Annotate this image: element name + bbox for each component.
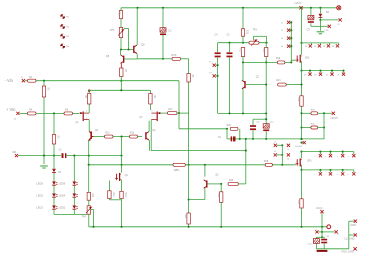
svg-text:P1: P1 [209, 62, 211, 64]
svg-text:TP1: TP1 [110, 29, 115, 32]
svg-text:R20: R20 [227, 125, 232, 127]
svg-text:TP3: TP3 [252, 28, 257, 31]
svg-text:R16: R16 [245, 30, 247, 35]
svg-text:R28: R28 [264, 160, 269, 163]
svg-text:Q8: Q8 [106, 55, 110, 58]
svg-text:QP1: QP1 [307, 160, 312, 162]
svg-text:R30: R30 [297, 200, 299, 205]
svg-text:R24: R24 [217, 193, 219, 198]
svg-text:R29: R29 [297, 97, 299, 102]
svg-text:s: s [348, 174, 349, 176]
svg-text:s: s [325, 156, 326, 158]
svg-text:LED2: LED2 [59, 206, 66, 210]
svg-text:L4: L4 [281, 46, 283, 48]
svg-text:s: s [348, 156, 349, 158]
svg-text:J1: J1 [274, 142, 276, 144]
svg-text:-VCC: -VCC [315, 206, 322, 210]
svg-text:LED5: LED5 [37, 182, 44, 186]
svg-text:R15: R15 [130, 133, 135, 135]
svg-text:R10: R10 [106, 133, 111, 135]
svg-text:LED4: LED4 [59, 194, 66, 198]
svg-text:J3: J3 [274, 151, 276, 153]
svg-text:Q9: Q9 [141, 43, 145, 47]
svg-text:H4: H4 [67, 46, 69, 48]
svg-text:LED1: LED1 [37, 206, 44, 210]
svg-text:LSOUT: LSOUT [330, 118, 338, 120]
svg-text:QN1: QN1 [305, 57, 310, 59]
svg-text:s: s [337, 156, 338, 158]
svg-text:LSG: LSG [325, 30, 329, 32]
svg-text:PSU_GND: PSU_GND [342, 251, 354, 254]
svg-text:R22: R22 [184, 214, 186, 219]
svg-text:R13: R13 [112, 192, 114, 197]
svg-text:H2: H2 [67, 26, 69, 28]
svg-text:R14: R14 [124, 192, 126, 197]
svg-text:R19: R19 [276, 58, 281, 60]
svg-text:R12: R12 [91, 193, 93, 198]
svg-text:R17: R17 [169, 109, 174, 111]
svg-text:L3: L3 [281, 38, 283, 40]
svg-text:RC8: RC8 [172, 54, 177, 57]
svg-text:L8: L8 [337, 24, 339, 26]
svg-text:P4: P4 [209, 72, 211, 74]
svg-text:s: s [314, 156, 315, 158]
svg-text:J4: J4 [287, 159, 289, 161]
svg-text:R23: R23 [229, 180, 234, 182]
svg-text:L2: L2 [281, 30, 283, 32]
svg-text:R21: R21 [276, 80, 281, 82]
svg-text:- Vin: - Vin [5, 78, 14, 83]
svg-text:JMP1: JMP1 [174, 169, 181, 172]
svg-text:R18: R18 [262, 49, 264, 54]
svg-text:L1: L1 [281, 22, 283, 24]
svg-text:LED6: LED6 [59, 182, 66, 186]
svg-text:H3: H3 [67, 36, 69, 38]
svg-text:LED3: LED3 [37, 194, 44, 198]
svg-text:s: s [314, 174, 315, 176]
svg-text:N1CH2: N1CH2 [295, 146, 303, 148]
svg-text:LS_GND: LS_GND [344, 238, 354, 241]
svg-text:GIN: GIN [12, 152, 16, 154]
svg-text:R11: R11 [118, 12, 120, 17]
svg-text:TP4: TP4 [81, 216, 86, 219]
svg-text:H1: H1 [67, 16, 69, 18]
svg-text:+VCC: +VCC [294, 1, 302, 5]
svg-text:R17: R17 [239, 49, 241, 54]
svg-text:s: s [337, 174, 338, 176]
svg-text:+ Vin: + Vin [6, 107, 16, 112]
svg-text:s: s [325, 174, 326, 176]
svg-text:J2: J2 [287, 149, 289, 151]
svg-text:GND: GND [350, 224, 356, 227]
